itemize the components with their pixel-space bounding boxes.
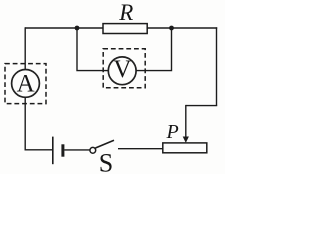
switch S pivot circle xyxy=(90,147,96,153)
ammeter dashed box xyxy=(5,64,46,104)
node junction top-left xyxy=(75,26,80,31)
voltmeter V circle xyxy=(108,57,136,85)
wire voltmeter left branch xyxy=(76,27,109,70)
wire ammeter bottom lead down to bottom rail xyxy=(24,98,26,151)
wire switch to rheostat xyxy=(118,148,164,150)
wire left vertical (top) xyxy=(24,27,26,64)
rheostat P body xyxy=(163,143,207,153)
battery long plate xyxy=(52,137,54,165)
wire slider drop xyxy=(185,105,187,139)
ammeter A circle xyxy=(12,70,40,98)
wire resistor right to top-right corner xyxy=(147,27,217,29)
wire battery to switch xyxy=(64,149,90,151)
arrowhead on rheostat slider xyxy=(183,137,189,143)
wire bottom-left rail to battery xyxy=(25,149,53,151)
svg-text:S: S xyxy=(99,149,113,174)
resistor R xyxy=(103,24,147,34)
wire ammeter top lead xyxy=(24,65,26,70)
svg-text:P: P xyxy=(165,121,178,143)
wire top-left horizontal xyxy=(25,27,103,29)
battery short plate xyxy=(61,144,64,156)
node junction top-right xyxy=(169,26,174,31)
switch blade xyxy=(95,140,114,148)
voltmeter dashed box xyxy=(103,49,145,88)
svg-text:R: R xyxy=(118,0,133,25)
svg-text:V: V xyxy=(113,56,131,83)
wire voltmeter right lead xyxy=(136,28,172,71)
wire jog to slider xyxy=(186,105,217,107)
svg-text:A: A xyxy=(17,71,35,98)
wire right vertical xyxy=(216,27,218,105)
